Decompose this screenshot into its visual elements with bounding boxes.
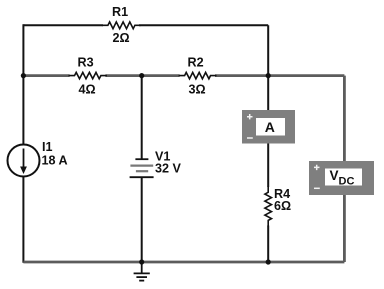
- svg-text:R2: R2: [188, 56, 204, 70]
- current source I1: [8, 145, 40, 177]
- node A: junction dot left rail / middle row: [21, 73, 26, 78]
- battery V1: [135, 158, 148, 160]
- wire V1 branch lower: [141, 177, 143, 263]
- resistor R1: [102, 22, 141, 29]
- svg-text:A: A: [265, 119, 275, 135]
- ammeter U1 (A): [242, 110, 295, 144]
- node C: junction dot center branch / middle row: [266, 73, 271, 78]
- svg-text:18 A: 18 A: [42, 153, 68, 167]
- resistor R4: [265, 186, 272, 226]
- svg-text:I1: I1: [42, 140, 53, 154]
- wire top right of R1: [139, 24, 268, 26]
- svg-text:2Ω: 2Ω: [113, 31, 130, 45]
- svg-text:V: V: [330, 168, 339, 183]
- wire middle row (gray net through R3, R2 to right branch): [23, 74, 69, 77]
- resistor R3: [69, 72, 107, 78]
- resistor R2: [179, 72, 217, 78]
- svg-text:4Ω: 4Ω: [79, 83, 96, 97]
- wire V1 branch upper: [141, 76, 143, 160]
- ground: [134, 262, 150, 281]
- voltmeter U2 (VDC): [309, 161, 374, 195]
- wire top: node from left branch to center branch: [23, 24, 103, 26]
- wire middle row right of R2: [215, 74, 344, 77]
- wire right branch vertical (gray, to VDC): [343, 76, 346, 262]
- wire center branch vertical: [267, 25, 269, 262]
- svg-text:3Ω: 3Ω: [189, 83, 206, 97]
- svg-text:6Ω: 6Ω: [274, 199, 291, 213]
- wire left vertical upper (I1 top lead): [22, 24, 24, 144]
- svg-text:R1: R1: [112, 5, 128, 19]
- wire bottom rail (gray ground net): [23, 261, 344, 264]
- svg-text:DC: DC: [339, 176, 355, 188]
- svg-text:R3: R3: [78, 56, 94, 70]
- node E: junction dot R4 bottom: [266, 259, 271, 264]
- node B: junction dot V1 top: [139, 73, 144, 78]
- svg-text:32 V: 32 V: [155, 162, 182, 176]
- node D: junction dot V1 bottom / ground: [139, 259, 144, 264]
- wire left vertical lower (I1 bottom lead): [22, 177, 24, 263]
- wire middle row between R3 and R2: [105, 74, 179, 77]
